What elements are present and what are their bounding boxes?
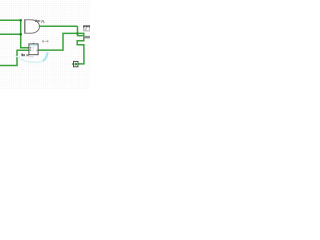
label wire "kd" — [21, 54, 24, 57]
subcircuit box U2 — [29, 43, 38, 55]
wire staircase to output pin — [77, 33, 84, 64]
output pin D2 — [72, 61, 78, 66]
wire input A horizontal — [0, 19, 21, 21]
junction right — [76, 32, 78, 34]
wire box input 2 from lower left — [0, 50, 29, 65]
wire rung B — [78, 35, 84, 37]
wire gate output horizontal — [39, 25, 78, 27]
label box "x = y" — [42, 40, 48, 42]
and-gate U1 — [25, 19, 40, 33]
annotation swoosh — [14, 55, 19, 57]
label gate "2nd y" — [35, 20, 45, 23]
junction top — [19, 19, 22, 22]
wire input B horizontal — [0, 33, 21, 35]
pin P1 top right (cut off) — [83, 25, 90, 31]
wire vertical tie to box input 1 — [21, 20, 29, 48]
junction bottom — [19, 33, 22, 36]
faint label smudge — [26, 54, 29, 56]
wire branch left to box output loop — [38, 33, 77, 50]
label cut text right — [83, 36, 90, 39]
wire right vertical drop — [77, 26, 79, 36]
